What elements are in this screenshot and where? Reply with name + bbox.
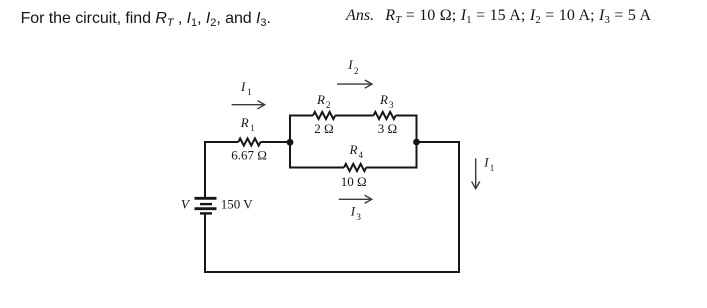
svg-text:I: I [350,204,356,219]
resistor R2 zigzag [313,112,335,119]
wire: top branch middle segment [335,115,373,117]
wire: left vertical from battery bottom to bottom wire [204,213,206,273]
wire: bottom branch left segment [289,167,344,169]
svg-text:150 V: 150 V [221,197,254,212]
svg-text:R: R [379,92,388,107]
resistor R1 zigzag [238,138,260,145]
svg-text:R: R [240,115,249,130]
resistor R4 zigzag [344,164,366,171]
wire: main top wire left segment (battery to R1) [204,141,238,143]
svg-text:10 Ω: 10 Ω [341,174,367,189]
svg-text:R: R [316,92,325,107]
arrow I1 (right side, downward) [472,158,480,188]
svg-text:V: V [181,197,191,212]
answer text [346,7,651,25]
svg-text:1: 1 [490,163,495,173]
svg-text:6.67 Ω: 6.67 Ω [231,148,267,163]
svg-text:I: I [483,155,489,170]
svg-text:2: 2 [326,100,331,110]
svg-text:3 Ω: 3 Ω [378,121,397,136]
arrow I3 (bottom branch current direction) [339,195,372,203]
svg-text:R: R [349,142,358,157]
wire: right node to right vertical [417,141,461,143]
wire: top branch right segment [396,115,418,117]
battery V plates [195,198,217,213]
wire: bottom branch right segment [366,167,417,169]
arrow I2 (top branch current direction) [337,80,372,88]
problem statement text [21,10,271,28]
wire: top branch left segment [289,115,313,117]
svg-text:3: 3 [389,100,394,110]
svg-text:2: 2 [354,66,359,76]
svg-text:I: I [347,57,353,72]
svg-text:1: 1 [250,123,255,133]
node B (junction of R3, R4 branches) [413,139,420,146]
svg-text:1: 1 [247,87,252,97]
wire: parallel box right vertical [416,116,418,168]
wire: bottom return wire [204,271,459,273]
svg-text:3: 3 [356,212,361,222]
wire: left vertical from top wire to battery top [204,141,206,197]
wire: parallel box left vertical [289,116,291,168]
svg-text:4: 4 [359,150,364,160]
svg-text:2 Ω: 2 Ω [314,121,333,136]
wire: right vertical [458,141,460,273]
node A (junction of R1, R2, R4 branches) [287,139,294,146]
svg-text:I: I [240,79,246,94]
arrow I1 (top left current direction) [232,101,265,109]
wire: main top wire right segment (R1 to node A) [261,141,291,143]
resistor R3 zigzag [374,112,396,119]
